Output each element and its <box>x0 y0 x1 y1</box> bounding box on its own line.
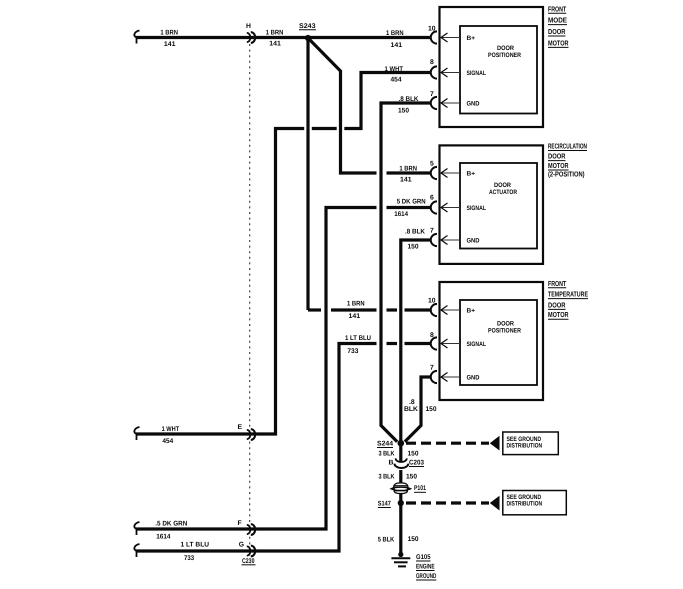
svg-text:3 BLK: 3 BLK <box>379 451 395 458</box>
box3 pin 7 GND <box>430 365 480 384</box>
svg-text:GROUND: GROUND <box>416 573 436 580</box>
svg-text:MOTOR: MOTOR <box>548 38 569 47</box>
see ground distribution box (lower) <box>503 491 567 515</box>
wire .8 BLK 150 (recirculation GND down to S244) <box>401 240 432 443</box>
svg-text:1 LT BLU: 1 LT BLU <box>345 335 371 342</box>
label .5 DK GRN 1614 (left) <box>155 521 187 541</box>
box3 pin 8 SIGNAL <box>430 332 486 350</box>
connector C203 pin B <box>389 458 425 468</box>
svg-text:C203: C203 <box>409 460 424 467</box>
grommet P101 <box>391 483 426 494</box>
off-page arrow (see ground distribution, lower) <box>490 496 500 511</box>
svg-text:150: 150 <box>426 406 437 413</box>
front mode door motor (box1) <box>440 7 544 127</box>
box3 title FRONT TEMPERATURE DOOR MOTOR <box>548 279 588 319</box>
svg-text:TEMPERATURE: TEMPERATURE <box>548 290 588 299</box>
label 1 BRN 141 (recirculation B+) <box>399 165 417 183</box>
label 3 BLK 150 (S244 to C203) <box>379 451 419 458</box>
box1 pin 10 B+ <box>428 26 475 44</box>
wire .8 BLK 150 (box1 GND down to S244) <box>381 103 432 442</box>
label 1 BRN 141 (to box1 pin 10) <box>386 30 404 49</box>
svg-text:FRONT: FRONT <box>548 279 567 288</box>
splice S243 <box>299 23 316 41</box>
svg-text:B: B <box>389 460 394 467</box>
svg-text:DOOR: DOOR <box>497 321 514 328</box>
label 5 BLK 150 <box>378 536 419 544</box>
svg-text:141: 141 <box>269 41 281 48</box>
wire 1 BRN from S243 diagonal to recirculation B+ <box>308 38 432 173</box>
svg-text:6: 6 <box>430 195 434 202</box>
svg-text:150: 150 <box>406 474 417 481</box>
svg-text:3 BLK: 3 BLK <box>379 474 395 481</box>
box1 title FRONT MODE DOOR MOTOR <box>548 4 569 47</box>
svg-text:150: 150 <box>398 108 409 115</box>
dashed wire to ground distribution (from S244) <box>406 442 489 445</box>
svg-text:150: 150 <box>408 536 419 543</box>
svg-text:FRONT: FRONT <box>548 4 567 13</box>
svg-text:GND: GND <box>467 238 480 245</box>
svg-text:DOOR: DOOR <box>548 300 566 309</box>
svg-text:1 BRN: 1 BRN <box>347 301 365 308</box>
connector C230 pin G <box>239 542 255 557</box>
label .8 BLK 150 (recirculation GND) <box>405 229 425 251</box>
svg-text:B+: B+ <box>467 308 476 315</box>
svg-text:150: 150 <box>408 451 419 458</box>
box1 pin 7 GND <box>430 91 480 109</box>
svg-text:DISTRIBUTION: DISTRIBUTION <box>507 501 543 508</box>
svg-text:1 WHT: 1 WHT <box>162 426 180 433</box>
box2 pin 5 B+ <box>430 161 475 180</box>
see ground distribution box (upper) <box>503 432 559 455</box>
wire C203 to P101 <box>399 470 402 483</box>
label .8 BLK 150 (front temp GND) <box>404 399 437 413</box>
svg-text:1 LT BLU: 1 LT BLU <box>181 541 210 548</box>
svg-text:BLK: BLK <box>404 406 418 413</box>
svg-text:GND: GND <box>467 375 480 382</box>
svg-text:SIGNAL: SIGNAL <box>467 205 487 212</box>
connector C230 pin F <box>238 520 256 535</box>
svg-text:1 WHT: 1 WHT <box>385 66 404 73</box>
svg-text:POSITIONER: POSITIONER <box>488 328 521 335</box>
svg-text:GND: GND <box>467 101 480 108</box>
off-page arrow (see ground distribution, upper) <box>490 436 500 451</box>
svg-text:454: 454 <box>162 438 173 445</box>
ground G105 <box>391 552 436 580</box>
connector C230 harness boundary (dashed line) <box>249 44 251 556</box>
wire 1 BRN 141 (S243 to front temp B+) <box>308 308 432 311</box>
svg-text:DOOR: DOOR <box>548 152 566 161</box>
svg-text:H: H <box>246 23 251 30</box>
svg-text:DOOR: DOOR <box>497 45 514 52</box>
wire 1 WHT 454 (left, connector E, up to box1 signal) <box>134 73 431 441</box>
svg-text:MODE: MODE <box>548 16 567 25</box>
label 1 BRN 141 (front temp B+) <box>347 301 365 321</box>
label 1 WHT 454 (box1 signal) <box>385 66 404 84</box>
svg-text:P101: P101 <box>414 485 426 492</box>
svg-text:7: 7 <box>430 228 434 235</box>
label 1 WHT 454 (left) <box>162 426 180 445</box>
box2 pin 6 SIGNAL <box>430 195 486 214</box>
svg-text:5 DK GRN: 5 DK GRN <box>397 199 426 206</box>
svg-text:S244: S244 <box>377 441 393 448</box>
wire 1 LT BLU 733 (left, connector G, to front temp signal) <box>134 344 431 558</box>
box3 pin 10 B+ <box>428 298 475 317</box>
svg-text:ENGINE: ENGINE <box>416 564 435 571</box>
svg-text:.8: .8 <box>409 399 415 406</box>
svg-text:.5 DK GRN: .5 DK GRN <box>155 521 187 528</box>
svg-text:SIGNAL: SIGNAL <box>467 341 487 348</box>
svg-text:733: 733 <box>347 348 358 355</box>
svg-text:B+: B+ <box>467 171 476 178</box>
svg-text:E: E <box>238 424 243 431</box>
label 1 LT BLU 733 (left) <box>181 541 210 562</box>
recirculation door motor (box2) <box>440 145 544 264</box>
svg-text:POSITIONER: POSITIONER <box>488 52 521 59</box>
wire .8 BLK 150 (front temp GND down to S244) <box>405 377 432 442</box>
label .8 BLK 150 (box1 GND) <box>398 96 419 115</box>
box2 pin 7 GND <box>430 228 480 247</box>
label 5 DK GRN 1614 (recirculation signal) <box>394 199 425 219</box>
svg-text:G: G <box>239 542 244 549</box>
connector C230 label <box>242 558 256 565</box>
splice S244 <box>377 440 404 448</box>
svg-text:1 BRN: 1 BRN <box>160 30 178 37</box>
svg-text:141: 141 <box>400 177 412 184</box>
svg-text:7: 7 <box>430 365 434 372</box>
svg-text:141: 141 <box>391 42 403 49</box>
splice S147 <box>378 500 404 508</box>
wire S147 to ground, 5 BLK 150 <box>399 503 402 554</box>
svg-text:5: 5 <box>430 161 434 168</box>
box2 title RECIRCULATION DOOR MOTOR (2-POSITION) <box>548 142 587 179</box>
svg-text:733: 733 <box>184 555 194 562</box>
svg-text:S243: S243 <box>299 23 316 30</box>
dashed wire to ground distribution (from S147) <box>406 501 489 504</box>
svg-text:5 BLK: 5 BLK <box>378 537 395 544</box>
svg-text:ACTUATOR: ACTUATOR <box>489 189 517 196</box>
svg-text:1 BRN: 1 BRN <box>399 165 417 172</box>
svg-text:141: 141 <box>164 41 176 48</box>
connector C230 pin E <box>238 424 256 440</box>
label 1 BRN 141 (after connector H) <box>266 30 284 48</box>
svg-text:DISTRIBUTION: DISTRIBUTION <box>507 443 543 450</box>
svg-text:454: 454 <box>391 77 402 84</box>
svg-text:F: F <box>238 520 242 527</box>
svg-text:1 BRN: 1 BRN <box>386 30 404 37</box>
svg-text:.8 BLK: .8 BLK <box>399 96 419 103</box>
svg-text:(2-POSITION): (2-POSITION) <box>548 170 585 179</box>
svg-text:RECIRCULATION: RECIRCULATION <box>548 142 587 151</box>
svg-text:G105: G105 <box>416 554 431 561</box>
label 1 LT BLU 733 (front temp signal) <box>345 335 371 355</box>
svg-text:150: 150 <box>408 244 419 251</box>
svg-text:S147: S147 <box>378 501 391 508</box>
svg-text:B+: B+ <box>467 35 476 42</box>
svg-text:1614: 1614 <box>156 533 171 540</box>
wire 1 BRN 141 (left, through connector H to S243 and pin 10) <box>134 31 431 44</box>
svg-text:141: 141 <box>349 313 361 320</box>
svg-text:.8 BLK: .8 BLK <box>405 229 425 236</box>
svg-text:DOOR: DOOR <box>494 182 511 189</box>
svg-text:8: 8 <box>430 59 434 66</box>
label 1 BRN 141 (far left) <box>160 30 178 48</box>
svg-text:1 BRN: 1 BRN <box>266 30 284 37</box>
svg-text:SIGNAL: SIGNAL <box>467 70 487 77</box>
connector C230 pin H <box>246 23 255 43</box>
wire 5 DK GRN 1614 (left, connector F, to recirculation signal) <box>134 208 431 536</box>
box1 pin 8 SIGNAL <box>430 59 486 79</box>
svg-text:MOTOR: MOTOR <box>548 310 569 319</box>
label 3 BLK 150 (C203 to P101) <box>379 474 418 481</box>
front temperature door motor (box3) <box>440 282 544 400</box>
wire P101 to S147 <box>399 494 402 504</box>
wire from S243 down to front temperature feed <box>306 38 309 310</box>
svg-text:1614: 1614 <box>394 211 408 218</box>
svg-text:C230: C230 <box>242 558 255 565</box>
wire S244 to C203 <box>399 443 402 461</box>
svg-text:DOOR: DOOR <box>548 27 566 36</box>
